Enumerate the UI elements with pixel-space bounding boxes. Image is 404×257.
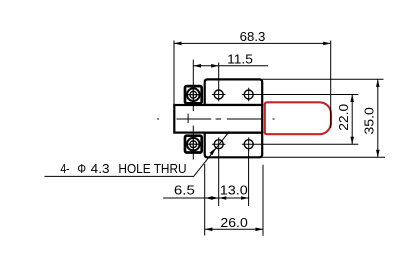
- svg-text:11.5: 11.5: [227, 51, 253, 66]
- svg-text:35.0: 35.0: [361, 107, 376, 134]
- svg-text:HOLE THRU: HOLE THRU: [118, 161, 186, 176]
- svg-text:4.3: 4.3: [91, 161, 110, 176]
- svg-text:26.0: 26.0: [220, 215, 247, 230]
- svg-text:4-: 4-: [60, 161, 69, 176]
- svg-text:Φ: Φ: [77, 161, 86, 176]
- svg-text:22.0: 22.0: [336, 104, 351, 131]
- svg-text:68.3: 68.3: [240, 29, 266, 44]
- svg-text:6.5: 6.5: [174, 183, 195, 198]
- svg-text:13.0: 13.0: [220, 183, 248, 198]
